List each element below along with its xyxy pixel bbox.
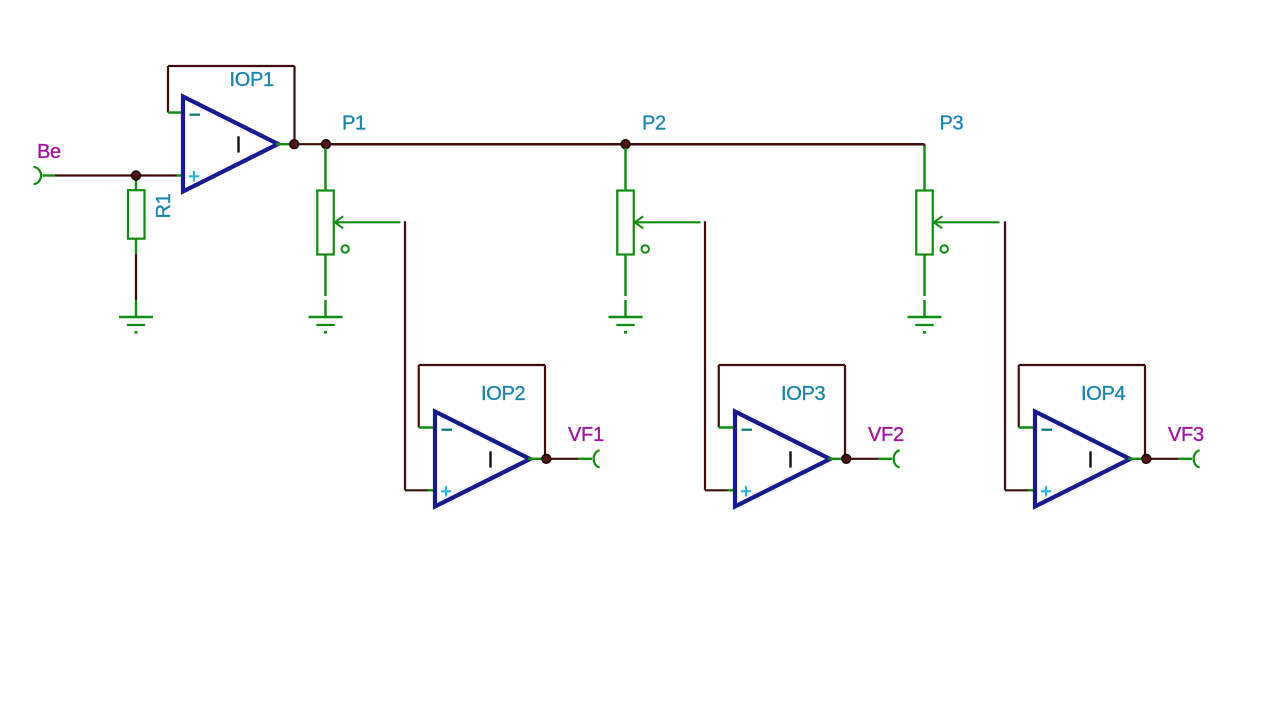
svg-text:P2: P2 <box>642 113 666 135</box>
svg-text:IOP1: IOP1 <box>230 69 275 91</box>
svg-text:VF1: VF1 <box>568 424 604 446</box>
svg-text:IOP4: IOP4 <box>1081 383 1126 405</box>
svg-text:P3: P3 <box>940 113 964 135</box>
svg-text:Be: Be <box>37 141 61 163</box>
svg-text:IOP2: IOP2 <box>481 383 526 405</box>
svg-text:VF3: VF3 <box>1168 424 1204 446</box>
svg-text:R1: R1 <box>153 193 175 218</box>
svg-text:P1: P1 <box>342 113 366 135</box>
svg-text:IOP3: IOP3 <box>781 383 826 405</box>
svg-text:VF2: VF2 <box>868 424 904 446</box>
